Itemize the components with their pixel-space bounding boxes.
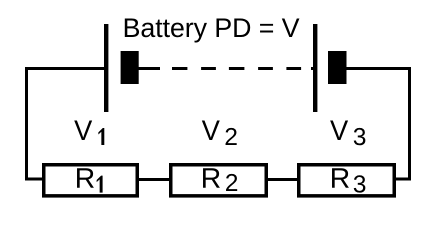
battery BT1 right short thick plate [328,51,347,84]
battery BT1 right long plate [313,24,317,112]
label V3 [330,120,365,145]
wire left vertical [25,67,28,181]
wire dashed battery link [139,67,316,70]
battery BT1 left long plate [104,24,108,112]
wire right vertical [408,67,411,181]
label V1 [74,120,104,145]
battery BT1 left short thick plate [121,51,139,84]
wire top-right horizontal [346,67,411,70]
label R1 [77,168,103,192]
wire R2-R3 [266,178,299,181]
label V2 [202,120,237,145]
resistor R2 box [171,165,267,196]
resistor R1 box [44,165,138,196]
label R2 [203,168,237,191]
label R3 [332,168,365,192]
wire R1-R2 [137,178,171,181]
label: Battery PD = V [125,19,300,43]
wire bottom-left stub into R1 [25,178,44,181]
wire top-left horizontal [25,67,106,70]
wire bottom-right stub into R3 [394,178,411,181]
resistor R3 box [299,165,395,196]
